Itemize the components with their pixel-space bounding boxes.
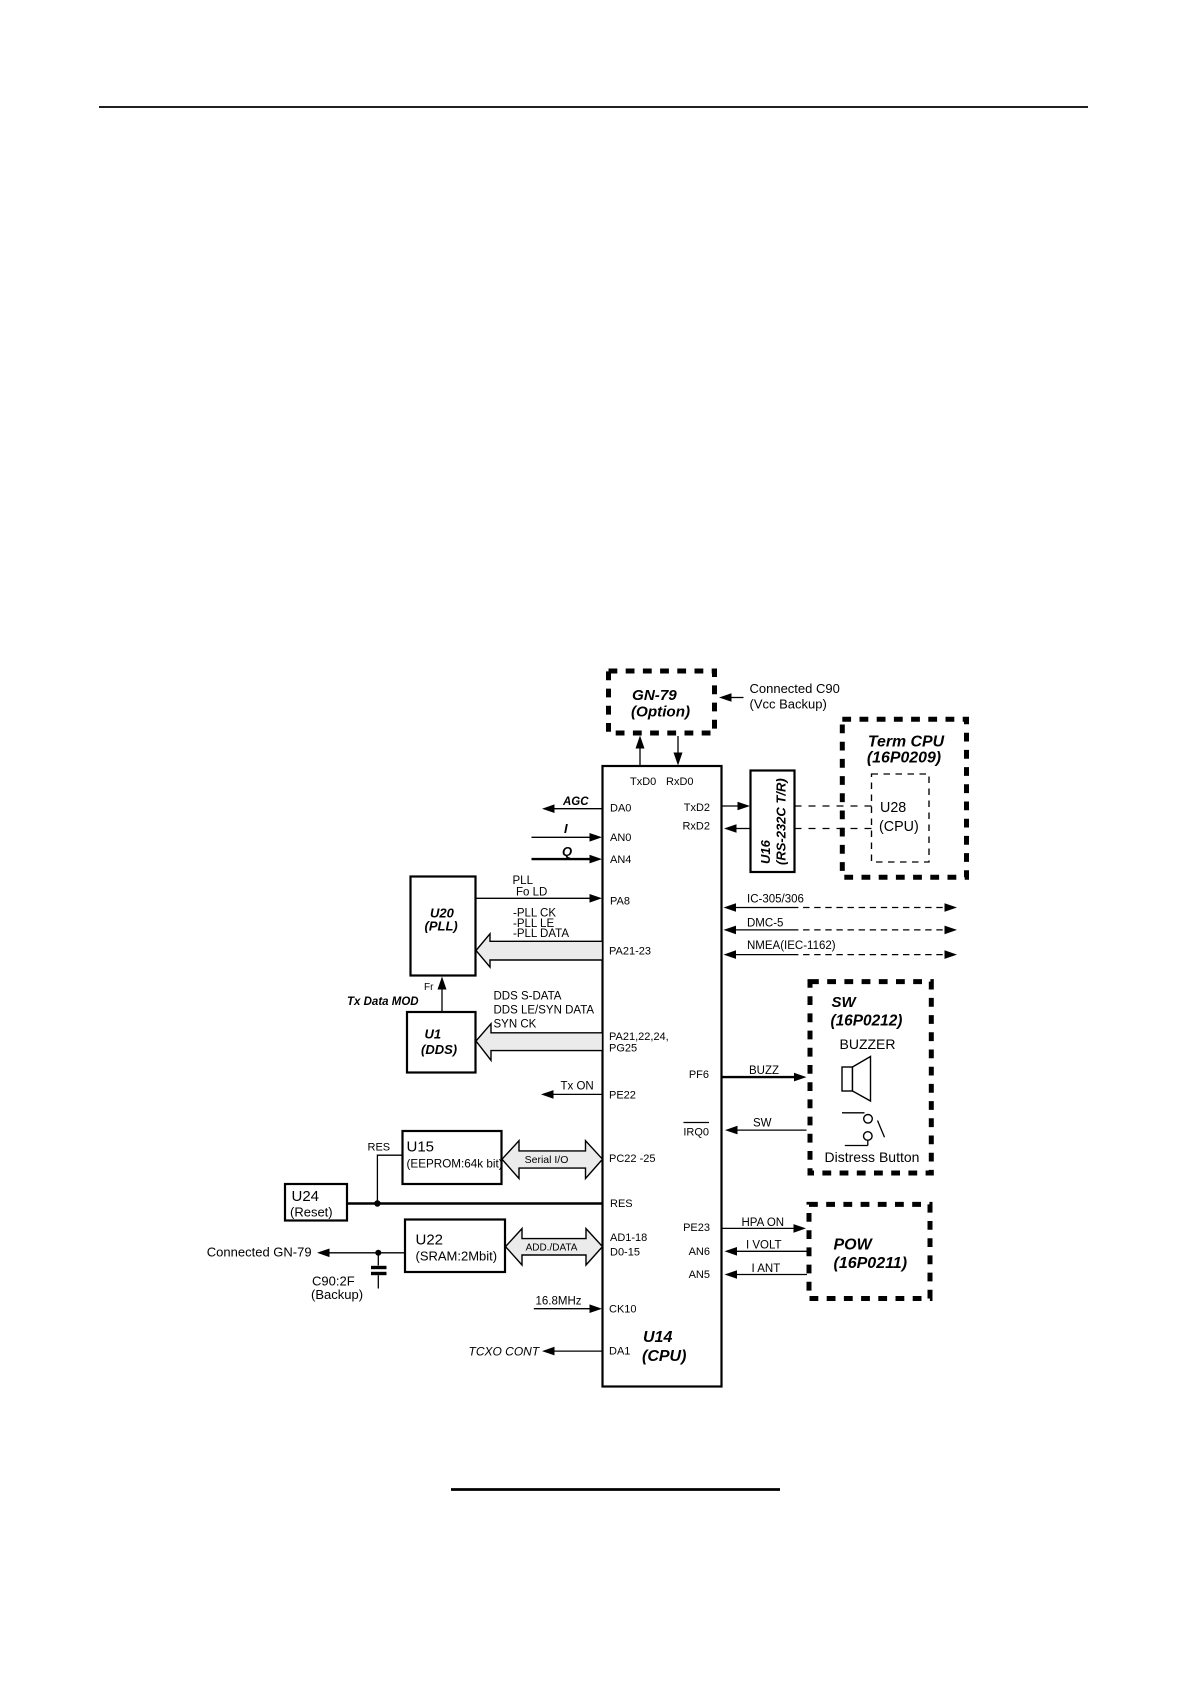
svg-text:U14: U14 [643, 1329, 672, 1346]
svg-text:U28: U28 [880, 800, 906, 816]
svg-text:Serial I/O: Serial I/O [525, 1154, 569, 1166]
svg-text:PA21,22,24,: PA21,22,24, [609, 1031, 669, 1043]
svg-text:Distress Button: Distress Button [825, 1149, 920, 1165]
svg-text:Tx Data MOD: Tx Data MOD [347, 996, 419, 1008]
svg-text:I: I [564, 821, 568, 836]
svg-text:(Backup): (Backup) [311, 1287, 363, 1302]
svg-text:SW: SW [832, 994, 858, 1011]
svg-text:Connected GN-79: Connected GN-79 [207, 1245, 312, 1260]
svg-text:(DDS): (DDS) [421, 1042, 457, 1057]
svg-text:SYN CK: SYN CK [494, 1019, 537, 1031]
svg-text:RES: RES [368, 1142, 391, 1154]
svg-text:U1: U1 [425, 1027, 442, 1042]
svg-text:(CPU): (CPU) [879, 819, 919, 835]
svg-text:TxD0: TxD0 [630, 776, 656, 788]
svg-text:Connected C90: Connected C90 [750, 681, 840, 696]
svg-text:PF6: PF6 [689, 1069, 709, 1081]
svg-text:AD1-18: AD1-18 [610, 1232, 647, 1244]
svg-text:(EEPROM:64k bit): (EEPROM:64k bit) [407, 1158, 503, 1171]
svg-text:HPA ON: HPA ON [742, 1217, 785, 1229]
svg-text:DDS LE/SYN DATA: DDS LE/SYN DATA [494, 1004, 595, 1016]
svg-text:D0-15: D0-15 [610, 1247, 640, 1259]
svg-text:-PLL DATA: -PLL DATA [513, 928, 569, 940]
svg-text:DDS S-DATA: DDS S-DATA [494, 991, 562, 1003]
svg-text:SW: SW [753, 1118, 772, 1130]
svg-text:Q: Q [562, 844, 572, 859]
svg-text:RES: RES [610, 1198, 633, 1210]
svg-text:I VOLT: I VOLT [746, 1240, 782, 1252]
svg-text:(Option): (Option) [631, 704, 690, 721]
svg-text:AN5: AN5 [689, 1269, 710, 1281]
svg-text:16.8MHz: 16.8MHz [536, 1296, 582, 1308]
svg-text:AN0: AN0 [610, 832, 631, 844]
svg-text:BUZZ: BUZZ [749, 1065, 779, 1077]
svg-text:AN6: AN6 [689, 1246, 710, 1258]
svg-text:Term CPU: Term CPU [868, 734, 945, 751]
svg-text:U24: U24 [292, 1188, 320, 1205]
svg-text:PC22 -25: PC22 -25 [609, 1153, 655, 1165]
svg-text:(Reset): (Reset) [290, 1205, 333, 1220]
svg-text:CK10: CK10 [609, 1304, 637, 1316]
svg-text:TCXO CONT: TCXO CONT [469, 1345, 541, 1359]
svg-text:PE22: PE22 [609, 1090, 636, 1102]
svg-text:PA8: PA8 [610, 896, 630, 908]
svg-text:(16P0209): (16P0209) [867, 750, 941, 767]
svg-text:TxD2: TxD2 [684, 802, 710, 814]
svg-text:(16P0211): (16P0211) [834, 1255, 908, 1272]
svg-text:AN4: AN4 [610, 854, 631, 866]
svg-text:NMEA(IEC-1162): NMEA(IEC-1162) [747, 940, 836, 952]
svg-text:GN-79: GN-79 [632, 687, 677, 704]
svg-text:U15: U15 [407, 1139, 435, 1156]
svg-text:I ANT: I ANT [752, 1263, 781, 1275]
svg-text:POW: POW [834, 1237, 874, 1254]
svg-text:PA21-23: PA21-23 [609, 946, 651, 958]
svg-text:PE23: PE23 [683, 1222, 710, 1234]
svg-text:Fr: Fr [424, 982, 434, 993]
svg-text:DA0: DA0 [610, 803, 631, 815]
svg-text:RxD0: RxD0 [666, 776, 694, 788]
svg-text:DMC-5: DMC-5 [747, 918, 783, 930]
svg-text:RxD2: RxD2 [682, 821, 710, 833]
svg-text:ADD./DATA: ADD./DATA [526, 1243, 578, 1254]
svg-text:Fo LD: Fo LD [516, 887, 547, 899]
svg-text:(Vcc Backup): (Vcc Backup) [750, 697, 827, 712]
svg-text:IC-305/306: IC-305/306 [747, 894, 804, 906]
svg-text:BUZZER: BUZZER [840, 1036, 896, 1052]
svg-text:(PLL): (PLL) [425, 919, 458, 934]
svg-text:U22: U22 [416, 1232, 444, 1249]
svg-text:PLL: PLL [513, 875, 534, 887]
svg-text:IRQ0: IRQ0 [683, 1127, 709, 1139]
svg-text:PG25: PG25 [609, 1043, 637, 1055]
svg-text:AGC: AGC [562, 796, 589, 808]
svg-text:(RS-232C T/R): (RS-232C T/R) [774, 778, 789, 865]
svg-text:(16P0212): (16P0212) [831, 1013, 903, 1030]
svg-text:Tx ON: Tx ON [561, 1081, 594, 1093]
svg-text:(SRAM:2Mbit): (SRAM:2Mbit) [416, 1249, 498, 1264]
svg-text:DA1: DA1 [609, 1346, 630, 1358]
svg-text:(CPU): (CPU) [642, 1348, 686, 1365]
svg-text:U16: U16 [758, 839, 773, 864]
